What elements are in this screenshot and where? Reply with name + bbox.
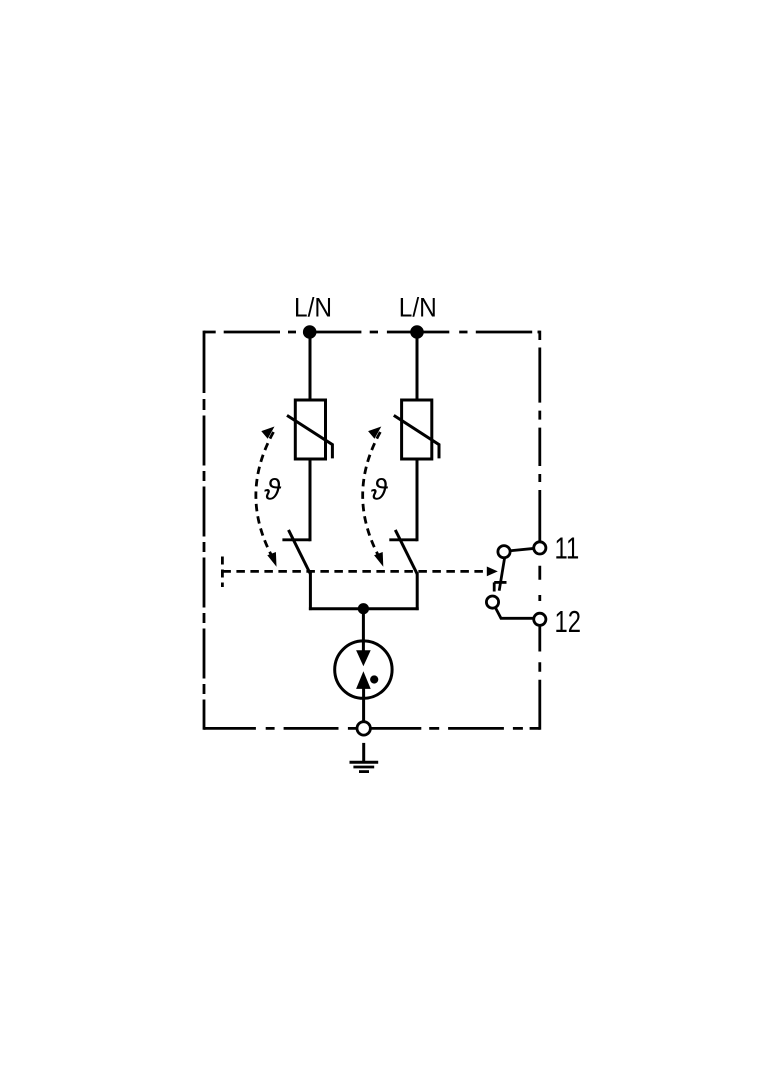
- wire branch2 top: [416, 332, 419, 401]
- spark gap dot mark: [370, 675, 378, 683]
- ground stem: [362, 743, 365, 762]
- thermal trip arc 2 (dashed, double arrow): [363, 432, 381, 560]
- spark gap (GDT) circle: [335, 641, 392, 698]
- junction node dot: [358, 603, 369, 614]
- svg-text:L/N: L/N: [399, 293, 437, 323]
- switch F2 blade: [395, 530, 417, 574]
- signalling contact hook vertical: [493, 582, 496, 591]
- wire branch1 top: [309, 332, 312, 401]
- arc1 lower arrowhead: [267, 552, 276, 567]
- ground bar 1: [350, 761, 379, 764]
- svg-text:ϑ: ϑ: [371, 474, 389, 507]
- arc2 lower arrowhead: [374, 552, 383, 567]
- thermal trip arc 1 (dashed, double arrow): [256, 432, 274, 560]
- enclosure border right (dash-dot): [538, 331, 541, 730]
- svg-text:11: 11: [555, 531, 580, 566]
- arc2 upper arrowhead: [368, 427, 381, 439]
- trip linkage anchor bar (dashed vertical): [221, 557, 224, 588]
- signalling contact hook horizontal: [494, 581, 506, 584]
- ground bar 3: [359, 770, 369, 773]
- svg-text:ϑ: ϑ: [264, 474, 282, 507]
- enclosure border top (dash-dot): [204, 331, 540, 334]
- spark gap lower electrode triangle: [356, 671, 371, 689]
- signalling contact blade: [499, 558, 504, 591]
- switch F1 blade: [289, 530, 311, 574]
- enclosure border left (dash-dot): [203, 331, 206, 730]
- varistor RV2 body: [402, 400, 432, 459]
- wire spark gap to earth terminal: [362, 687, 365, 722]
- trip linkage arrowhead: [487, 567, 498, 577]
- signalling contact: link line A-11: [509, 548, 535, 551]
- varistor RV1 diagonal stroke: [287, 415, 332, 458]
- svg-text:12: 12: [555, 604, 581, 639]
- switch F1 fixed contact tick: [282, 538, 310, 541]
- signalling contact circle A: [498, 546, 510, 558]
- terminal 11 circle: [534, 542, 546, 554]
- signalling contact circle B: [486, 596, 498, 608]
- spark gap upper electrode triangle: [356, 650, 371, 666]
- varistor RV2 diagonal stroke: [394, 415, 439, 458]
- node terminal dot 2 (L/N): [410, 325, 424, 339]
- bus wire joining branches: [309, 607, 419, 610]
- trip linkage dashed line: [222, 570, 487, 573]
- earth terminal circle (open): [357, 722, 370, 735]
- wire junction to spark gap: [362, 609, 365, 652]
- switch F2 fixed contact tick: [389, 538, 417, 541]
- node terminal dot 1 (L/N): [303, 325, 317, 339]
- ground bar 2: [353, 766, 374, 769]
- svg-text:L/N: L/N: [294, 293, 332, 323]
- varistor RV1 body: [295, 400, 325, 459]
- wire branch2 middle: [416, 459, 419, 541]
- wire circle B to terminal 12: [495, 608, 535, 619]
- wire branch2 lower: [416, 573, 419, 611]
- wire branch1 lower: [309, 573, 312, 611]
- enclosure border bottom (dash-dot): [204, 727, 540, 730]
- wire branch1 middle: [309, 459, 312, 541]
- terminal 12 circle: [534, 613, 546, 625]
- arc1 upper arrowhead: [261, 427, 274, 439]
